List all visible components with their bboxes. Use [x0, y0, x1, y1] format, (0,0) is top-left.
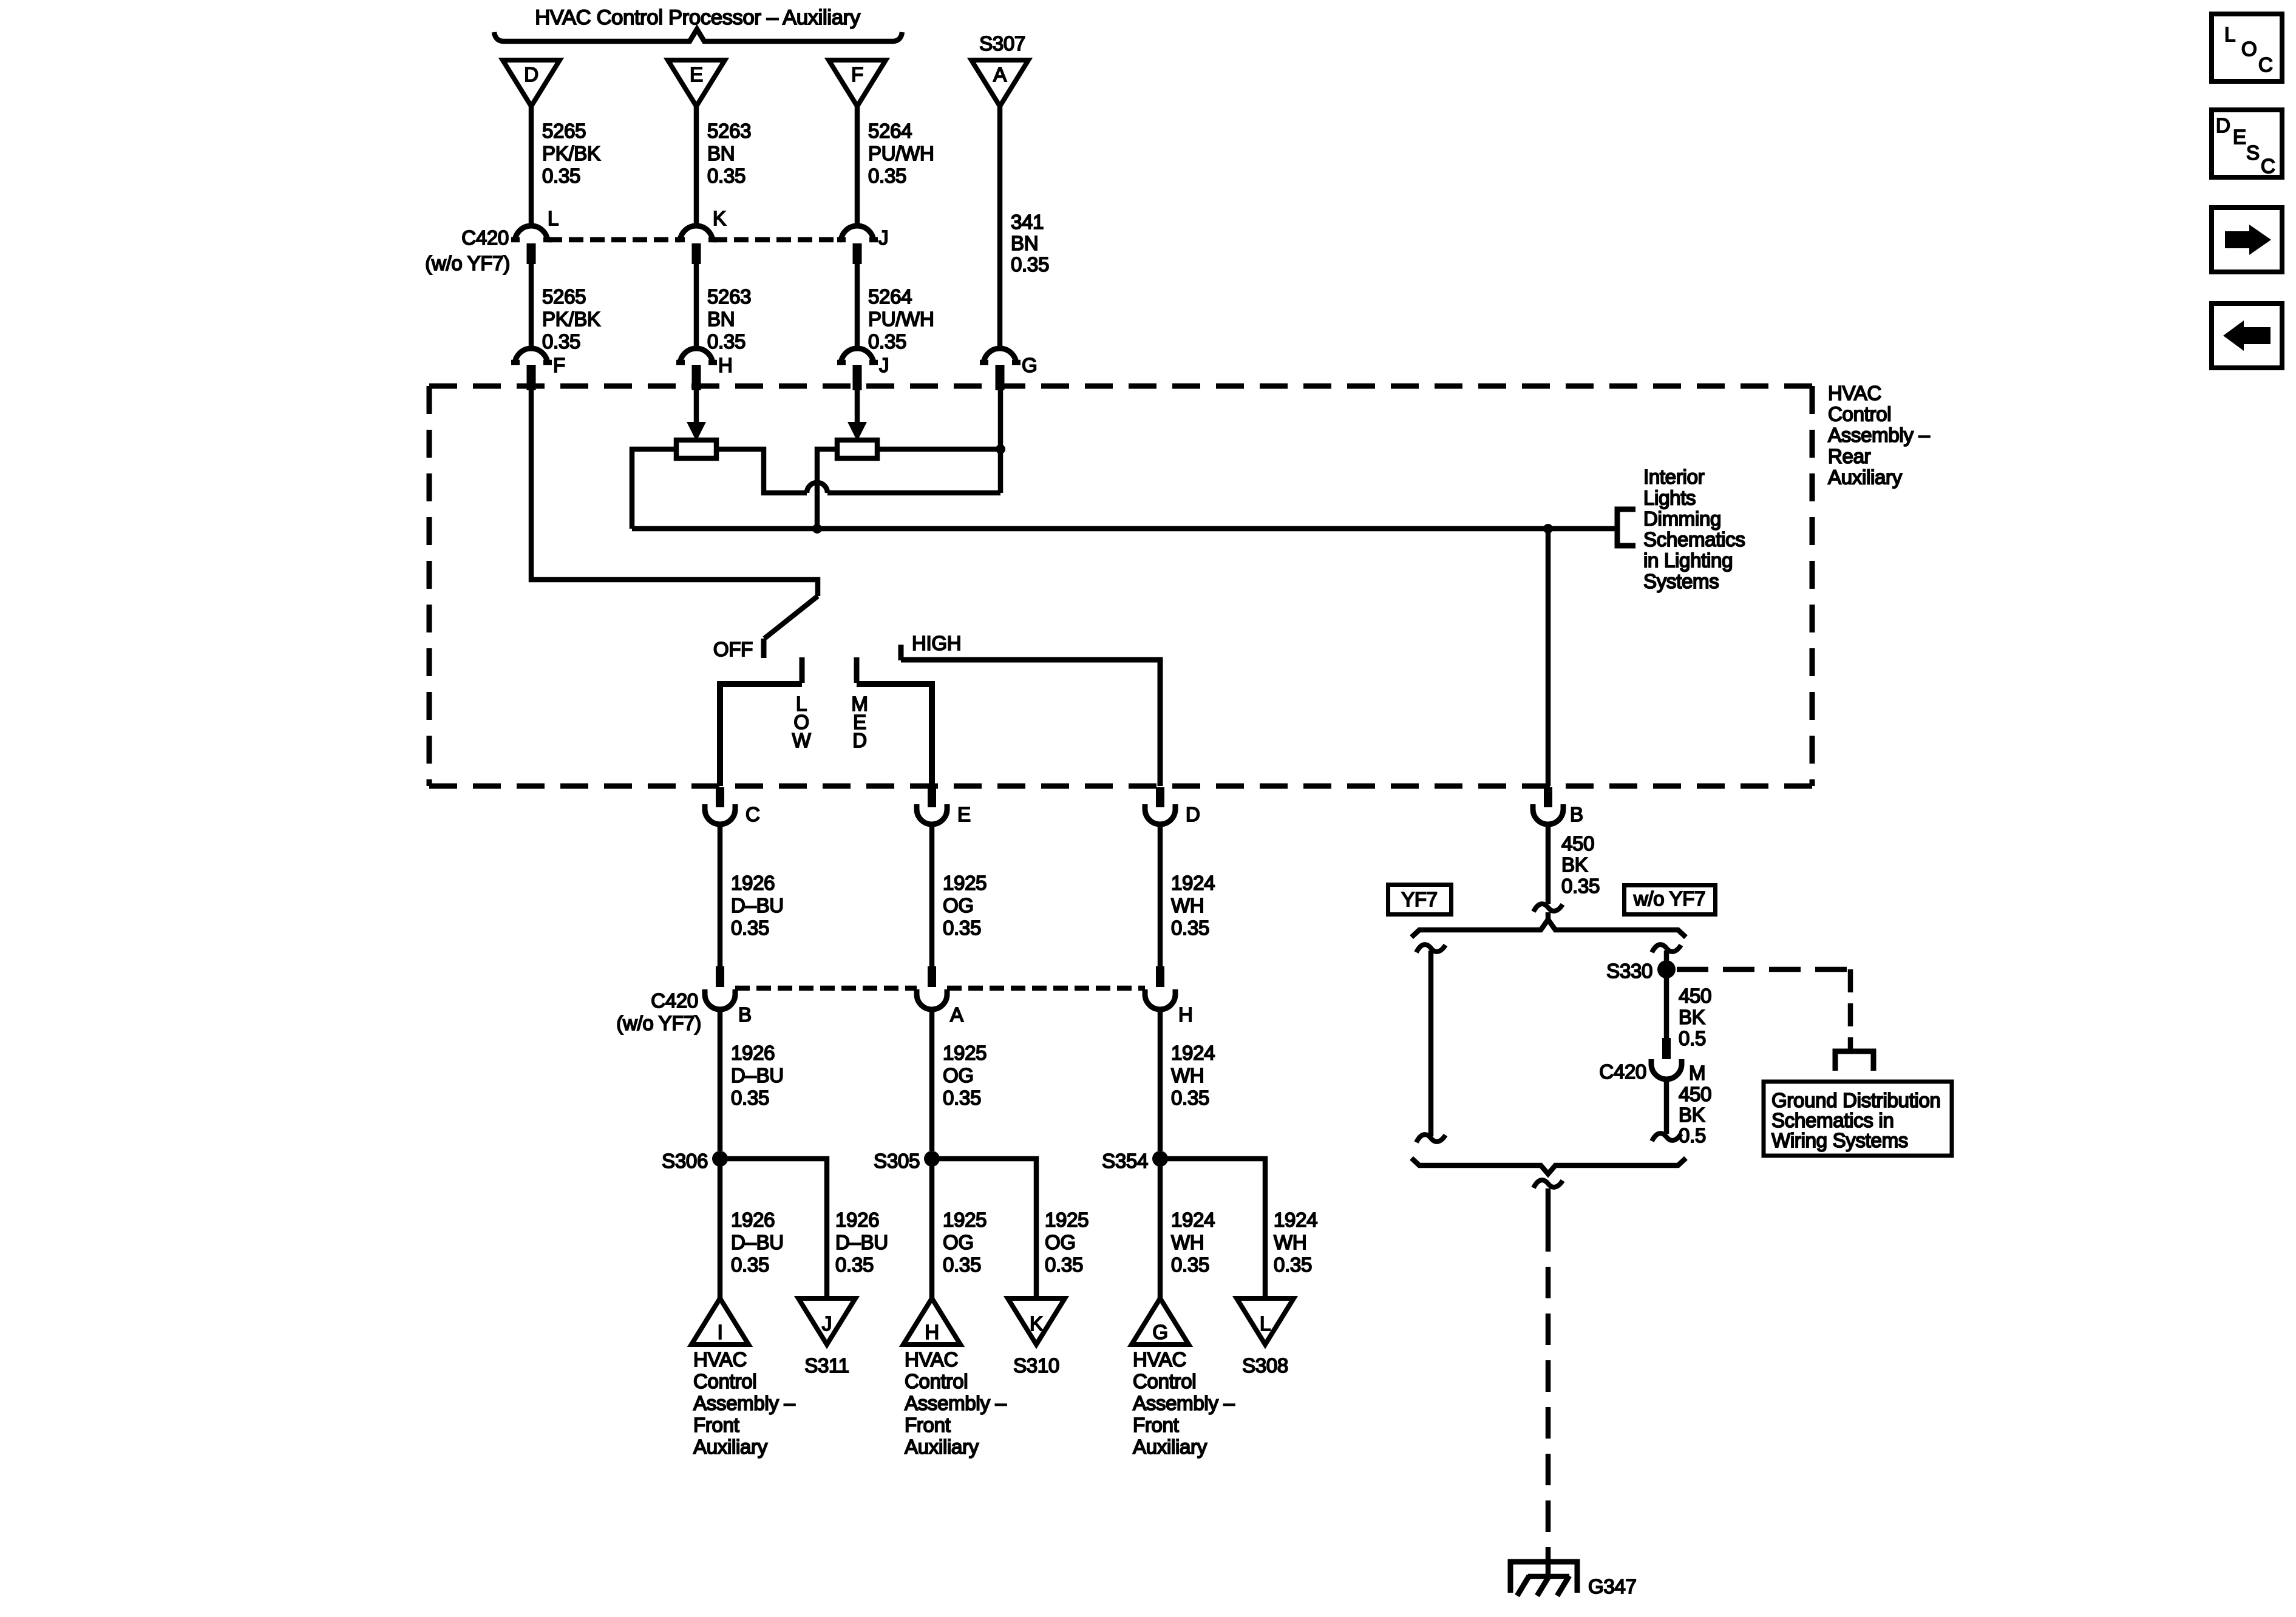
svg-text:InteriorLightsDimmingSchematic: InteriorLightsDimmingSchematicsin Lighti…: [1643, 466, 1745, 592]
svg-text:5265PK/BK0.35: 5265PK/BK0.35: [542, 285, 600, 353]
svg-text:H: H: [925, 1321, 939, 1343]
svg-text:HVACControlAssembly –FrontAuxi: HVACControlAssembly –FrontAuxiliary: [1133, 1348, 1235, 1458]
svg-text:M: M: [1689, 1062, 1705, 1084]
svg-text:B: B: [1570, 803, 1583, 825]
svg-text:S330: S330: [1606, 960, 1652, 982]
svg-text:(w/o YF7): (w/o YF7): [616, 1012, 701, 1034]
svg-text:I: I: [718, 1321, 723, 1343]
svg-text:Ground DistributionSchematics: Ground DistributionSchematics inWiring S…: [1771, 1089, 1941, 1151]
svg-text:J: J: [879, 354, 889, 376]
svg-text:341BN0.35: 341BN0.35: [1011, 211, 1049, 276]
svg-text:C: C: [2261, 155, 2275, 177]
svg-text:A: A: [950, 1003, 963, 1026]
svg-text:5265PK/BK0.35: 5265PK/BK0.35: [542, 120, 600, 187]
svg-text:1926D–BU0.35: 1926D–BU0.35: [731, 1209, 784, 1276]
svg-text:w/o YF7: w/o YF7: [1633, 887, 1705, 910]
svg-text:S307: S307: [979, 32, 1025, 55]
svg-text:HIGH: HIGH: [912, 632, 961, 654]
svg-text:O: O: [2241, 38, 2257, 60]
svg-text:S308: S308: [1242, 1354, 1288, 1377]
svg-text:1925OG0.35: 1925OG0.35: [1045, 1209, 1089, 1276]
svg-text:G: G: [1022, 354, 1037, 376]
svg-text:G347: G347: [1588, 1575, 1637, 1598]
svg-text:S: S: [2246, 141, 2260, 164]
svg-text:D: D: [852, 729, 867, 751]
svg-text:F: F: [553, 354, 565, 376]
svg-text:1924WH0.35: 1924WH0.35: [1171, 872, 1215, 939]
svg-text:S306: S306: [662, 1150, 708, 1172]
svg-text:5263BN0.35: 5263BN0.35: [707, 285, 751, 353]
svg-text:450BK0.5: 450BK0.5: [1679, 1083, 1711, 1147]
svg-text:C420: C420: [461, 226, 509, 249]
svg-text:C: C: [746, 803, 760, 825]
svg-text:D: D: [1186, 803, 1200, 825]
svg-text:5264PU/WH0.35: 5264PU/WH0.35: [868, 120, 934, 187]
svg-text:S311: S311: [804, 1354, 849, 1377]
svg-text:H: H: [1178, 1003, 1193, 1026]
svg-text:K: K: [1030, 1312, 1043, 1335]
svg-text:S305: S305: [874, 1150, 920, 1172]
svg-text:5263BN0.35: 5263BN0.35: [707, 120, 751, 187]
svg-text:E: E: [957, 803, 971, 825]
svg-text:B: B: [738, 1003, 752, 1026]
svg-text:1926D–BU0.35: 1926D–BU0.35: [731, 1042, 784, 1109]
svg-text:450BK0.35: 450BK0.35: [1561, 832, 1600, 897]
svg-text:A: A: [993, 63, 1007, 86]
svg-text:C: C: [2258, 53, 2273, 76]
svg-text:E: E: [690, 63, 703, 86]
svg-text:C420: C420: [651, 989, 698, 1012]
svg-text:G: G: [1152, 1321, 1167, 1343]
svg-text:HVACControlAssembly –RearAuxil: HVACControlAssembly –RearAuxiliary: [1828, 382, 1931, 488]
svg-text:C420: C420: [1599, 1060, 1646, 1083]
svg-text:1924WH0.35: 1924WH0.35: [1171, 1042, 1215, 1109]
svg-text:S354: S354: [1102, 1150, 1148, 1172]
svg-text:1925OG0.35: 1925OG0.35: [943, 1042, 987, 1109]
svg-text:450BK0.5: 450BK0.5: [1679, 985, 1711, 1049]
svg-text:YF7: YF7: [1401, 888, 1438, 910]
svg-text:5264PU/WH0.35: 5264PU/WH0.35: [868, 285, 934, 353]
svg-text:1924WH0.35: 1924WH0.35: [1171, 1209, 1215, 1276]
svg-text:1925OG0.35: 1925OG0.35: [943, 1209, 987, 1276]
svg-text:HVACControlAssembly –FrontAuxi: HVACControlAssembly –FrontAuxiliary: [905, 1348, 1007, 1458]
svg-text:J: J: [822, 1312, 832, 1335]
svg-text:1926D–BU0.35: 1926D–BU0.35: [731, 872, 784, 939]
svg-text:D: D: [2216, 114, 2230, 137]
svg-text:K: K: [713, 207, 726, 229]
svg-text:D: D: [524, 63, 538, 86]
svg-text:L: L: [548, 207, 559, 229]
svg-text:1925OG0.35: 1925OG0.35: [943, 872, 987, 939]
svg-text:1926D–BU0.35: 1926D–BU0.35: [835, 1209, 888, 1276]
svg-text:(w/o YF7): (w/o YF7): [425, 252, 510, 274]
svg-text:H: H: [718, 354, 733, 376]
svg-text:HVACControlAssembly –FrontAuxi: HVACControlAssembly –FrontAuxiliary: [693, 1348, 796, 1458]
svg-text:1924WH0.35: 1924WH0.35: [1274, 1209, 1317, 1276]
svg-text:J: J: [878, 226, 888, 249]
svg-text:E: E: [2233, 126, 2246, 148]
svg-text:W: W: [792, 729, 812, 751]
svg-text:F: F: [851, 63, 863, 86]
svg-text:S310: S310: [1013, 1354, 1059, 1377]
svg-text:OFF: OFF: [713, 638, 753, 660]
svg-text:L: L: [2224, 23, 2235, 46]
svg-text:L: L: [1260, 1312, 1271, 1335]
